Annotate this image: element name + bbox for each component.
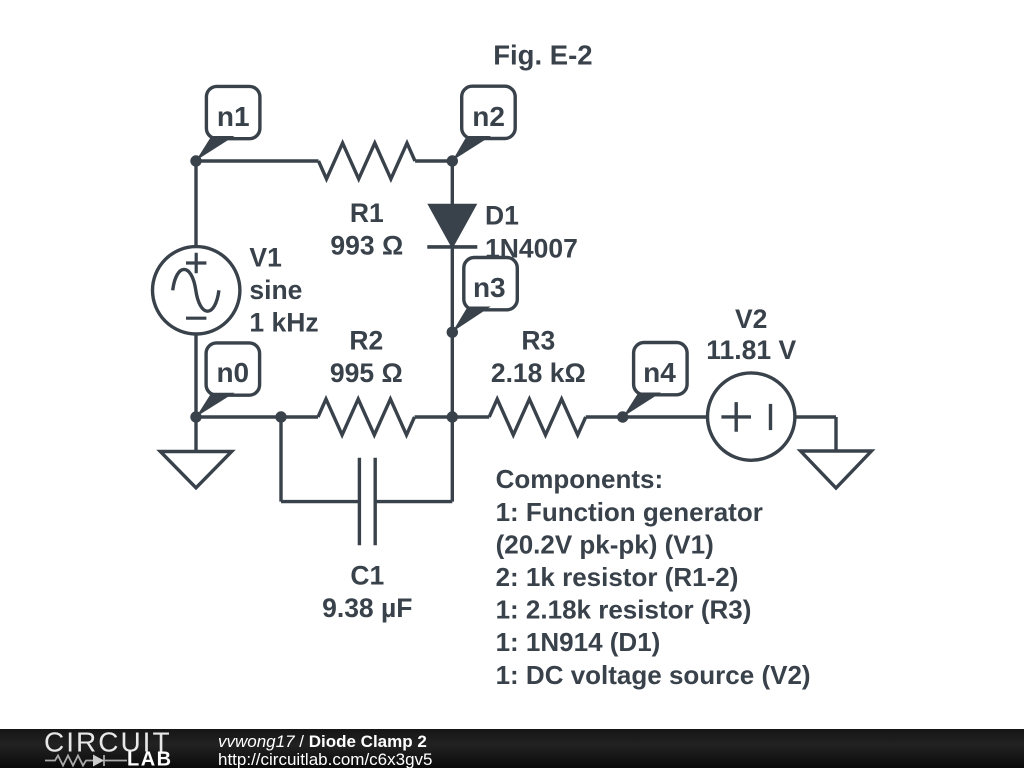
svg-text:n1: n1 (217, 101, 250, 132)
wire n1 to R1 (196, 159, 319, 162)
wire diode to n3 (451, 247, 454, 417)
node n1 junction (190, 155, 201, 166)
footer bar (0, 729, 1024, 768)
node n2 junction (447, 155, 458, 166)
resistor R2 (318, 399, 415, 435)
circuitlab logo (0, 729, 200, 768)
svg-text:LAB: LAB (127, 749, 173, 769)
svg-text:R2: R2 (349, 325, 383, 355)
svg-text:R1: R1 (350, 198, 384, 228)
wire R3 to n4 (586, 415, 623, 418)
node label n1 (206, 86, 260, 138)
node label n2 (462, 86, 516, 138)
components list (496, 464, 811, 690)
node n3 junction (447, 327, 458, 338)
svg-text:sine: sine (249, 275, 302, 305)
node label n0 (206, 343, 260, 395)
svg-text:1 kHz: 1 kHz (249, 308, 318, 338)
wire V2 down to ground (834, 417, 837, 451)
svg-text:(20.2V pk-pk) (V1): (20.2V pk-pk) (V1) (496, 529, 714, 559)
wire n3 junction to R3 (452, 415, 489, 418)
svg-text:n3: n3 (473, 272, 506, 303)
svg-text:D1: D1 (485, 201, 519, 231)
voltage source V2 (708, 373, 795, 460)
svg-text:993 Ω: 993 Ω (330, 231, 403, 261)
node label n3 (464, 258, 518, 310)
svg-text:995 Ω: 995 Ω (330, 358, 403, 388)
wire V1 bottom to n0 (194, 334, 197, 417)
svg-text:C1: C1 (350, 560, 384, 590)
wire V2 right (795, 415, 836, 418)
svg-text:V2: V2 (735, 304, 767, 334)
wire n3 branch down to capacitor (451, 417, 454, 502)
svg-text:2.18 kΩ: 2.18 kΩ (491, 358, 586, 388)
wire n0 to ground (194, 417, 197, 452)
diode D1 (427, 205, 477, 247)
junction cap left (275, 411, 286, 422)
footer title (218, 733, 432, 769)
svg-text:Fig. E-2: Fig. E-2 (493, 40, 592, 71)
svg-text:n4: n4 (643, 357, 676, 388)
wire junction to R2 (281, 415, 318, 418)
wire R1 to n2 (415, 159, 452, 162)
voltage source V1 (153, 247, 240, 334)
wire cap left drop (279, 417, 282, 502)
ground right (801, 451, 872, 488)
svg-text:n2: n2 (472, 101, 505, 132)
resistor R1 (319, 143, 416, 179)
wire to cap left plate (281, 500, 359, 503)
svg-text:9.38 µF: 9.38 µF (322, 593, 412, 623)
svg-text:1: DC voltage source (V2): 1: DC voltage source (V2) (496, 660, 811, 690)
svg-text:2: 1k resistor (R1-2): 2: 1k resistor (R1-2) (496, 562, 739, 592)
svg-text:n0: n0 (216, 357, 249, 388)
svg-text:V1: V1 (249, 242, 281, 272)
svg-text:1: 2.18k resistor (R3): 1: 2.18k resistor (R3) (496, 595, 752, 625)
wire n0 to cap junction (196, 415, 281, 418)
svg-text:Components:: Components: (496, 464, 664, 494)
node n0 junction (190, 411, 201, 422)
wire cap right plate to n3 branch (375, 500, 452, 503)
svg-text:1: Function generator: 1: Function generator (496, 497, 763, 527)
wire n1 to V1 top (194, 161, 197, 247)
wire n4 to V2 (623, 415, 708, 418)
junction R2-R3 (447, 411, 458, 422)
svg-text:R3: R3 (521, 325, 555, 355)
node n4 junction (617, 411, 628, 422)
node label n4 (634, 343, 688, 395)
wire R2 to n3 junction (415, 415, 453, 418)
svg-text:11.81 V: 11.81 V (706, 335, 796, 365)
capacitor C1 (359, 458, 375, 546)
resistor R3 (489, 399, 586, 435)
svg-text:1: 1N914 (D1): 1: 1N914 (D1) (496, 627, 661, 657)
wire n2 to diode (451, 161, 454, 206)
ground left (160, 452, 231, 488)
